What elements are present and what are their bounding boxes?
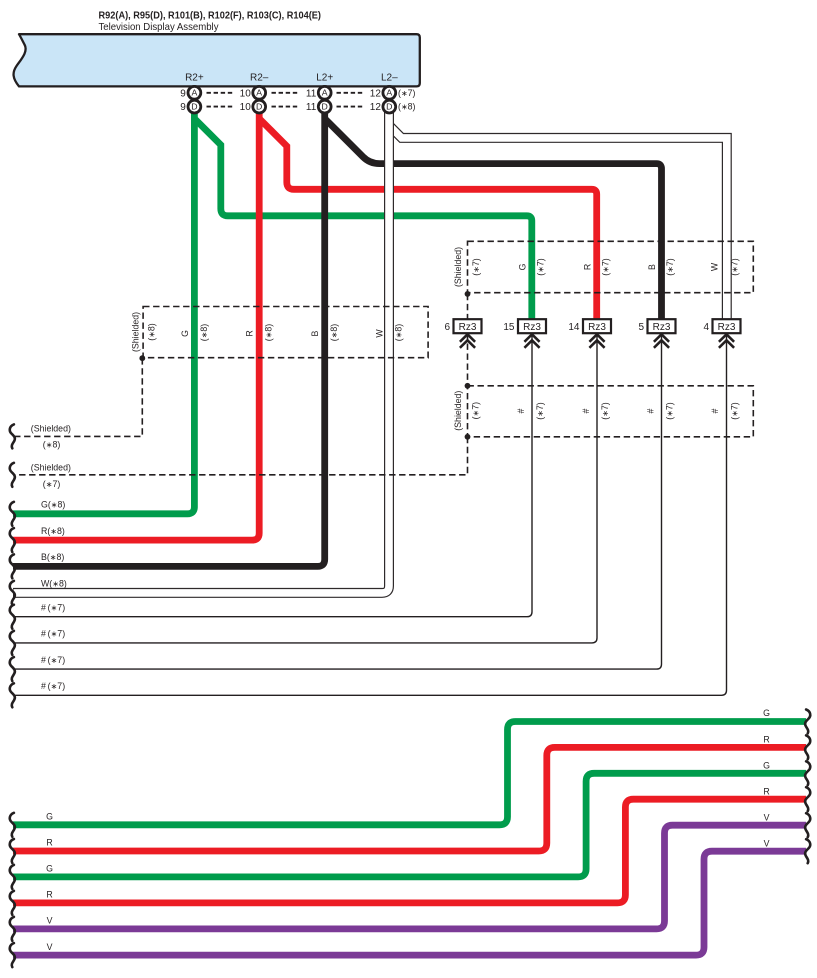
connector 5 Rz3 bbox=[638, 319, 675, 348]
svg-text:#: # bbox=[516, 408, 526, 413]
svg-text:11: 11 bbox=[306, 102, 317, 113]
connector 15 Rz3 bbox=[503, 319, 546, 348]
wavy break R bottom right 2 bbox=[805, 787, 810, 811]
svg-text:(∗7): (∗7) bbox=[600, 402, 610, 420]
wire dashed 11D-12D bbox=[337, 106, 365, 108]
svg-text:V: V bbox=[47, 942, 53, 952]
svg-text:(∗7): (∗7) bbox=[398, 88, 416, 98]
svg-text:9: 9 bbox=[180, 88, 186, 99]
wavy break R bottom left 1 bbox=[10, 839, 15, 863]
wire #5: connector 5 Rz3 shield drain down to left edge #(*7) bbox=[13, 334, 662, 670]
junction dot right lower shield box top bbox=[465, 383, 471, 389]
svg-text:5: 5 bbox=[638, 322, 644, 333]
svg-text:#: # bbox=[581, 408, 591, 413]
connector 4 Rz3 bbox=[703, 319, 740, 348]
svg-text:D: D bbox=[191, 102, 197, 112]
pin 9A bbox=[180, 86, 201, 99]
svg-text:(∗7): (∗7) bbox=[43, 479, 61, 489]
wire #14: connector 14 Rz3 shield drain down to left edge #(*7) bbox=[13, 334, 597, 643]
svg-text:W: W bbox=[710, 262, 720, 271]
svg-text:Television Display Assembly: Television Display Assembly bbox=[99, 21, 220, 33]
svg-text:Rz3: Rz3 bbox=[459, 322, 477, 333]
svg-text:10: 10 bbox=[240, 88, 252, 99]
svg-text:(∗8): (∗8) bbox=[264, 324, 274, 342]
wavy break V bottom left 2 bbox=[10, 943, 15, 967]
svg-text:# (∗7): # (∗7) bbox=[41, 655, 65, 665]
wire R main: pin 10D down to left edge R(*8) bbox=[13, 110, 259, 540]
svg-text:(∗8): (∗8) bbox=[43, 440, 61, 450]
svg-text:14: 14 bbox=[568, 322, 580, 333]
white hollow wires bbox=[13, 108, 727, 593]
wavy break V bottom left 1 bbox=[10, 917, 15, 941]
wire G bottom 2 bbox=[13, 773, 806, 877]
pin 11D bbox=[306, 100, 331, 113]
svg-text:(∗8): (∗8) bbox=[199, 324, 209, 342]
svg-text:B(∗8): B(∗8) bbox=[41, 552, 64, 562]
shield drain: connector 6 Rz3 through lower box to left edge (Shielded)(*7) bbox=[467, 334, 469, 386]
svg-text:A: A bbox=[192, 88, 198, 98]
wire W branch: pin 12D to connector 4 Rz3 (hollow white) bbox=[391, 127, 727, 321]
svg-text:G: G bbox=[763, 760, 770, 770]
junction dot right lower shield box bottom bbox=[465, 434, 471, 440]
svg-text:(Shielded): (Shielded) bbox=[31, 423, 71, 433]
svg-text:(Shielded): (Shielded) bbox=[453, 391, 463, 431]
wavy break G bottom left 1 bbox=[10, 813, 15, 837]
shield box right lower (*7) bbox=[468, 386, 754, 437]
wavy break #3 bbox=[10, 657, 15, 681]
wire R bottom 1 bbox=[13, 747, 806, 851]
svg-text:9: 9 bbox=[180, 102, 186, 113]
wavy break W(*8) bbox=[10, 581, 15, 605]
wire V bottom 2 bbox=[13, 851, 806, 955]
svg-text:G(∗8): G(∗8) bbox=[41, 500, 65, 510]
svg-text:V: V bbox=[764, 813, 770, 823]
wavy break #2 bbox=[10, 631, 15, 655]
svg-text:11: 11 bbox=[306, 88, 317, 99]
svg-text:D: D bbox=[386, 102, 392, 112]
wavy break R bottom right 1 bbox=[805, 735, 810, 759]
svg-text:6: 6 bbox=[444, 322, 450, 333]
Television Display Assembly component box bbox=[14, 34, 420, 86]
wavy break R bottom left 2 bbox=[10, 891, 15, 915]
svg-text:G: G bbox=[46, 864, 53, 874]
wire R bottom 2 bbox=[13, 799, 806, 903]
svg-text:(∗7): (∗7) bbox=[601, 258, 611, 276]
wire B branch: pin 11D to connector 5 Rz3 bbox=[326, 120, 662, 322]
wire dashed 9A-10A bbox=[207, 92, 235, 94]
svg-text:W: W bbox=[375, 329, 385, 338]
wavy break G bottom right 1 bbox=[805, 710, 810, 734]
wire G branch: pin 9D to connector 15 Rz3 bbox=[195, 120, 531, 322]
wavy break G bottom left 2 bbox=[10, 865, 15, 889]
svg-text:# (∗7): # (∗7) bbox=[41, 681, 65, 691]
pin 10A bbox=[240, 86, 266, 99]
svg-text:R: R bbox=[583, 264, 593, 270]
shield drain wire left: dot to left edge (Shielded)(*8) bbox=[13, 358, 142, 436]
svg-text:B: B bbox=[310, 330, 320, 336]
pin 11A bbox=[306, 86, 331, 99]
wavy break G bottom right 2 bbox=[805, 761, 810, 785]
svg-text:G: G bbox=[180, 330, 190, 337]
svg-text:R: R bbox=[245, 330, 255, 336]
connector 6 Rz3 bbox=[444, 319, 481, 348]
svg-text:B: B bbox=[647, 264, 657, 270]
svg-text:(∗7): (∗7) bbox=[730, 258, 740, 276]
svg-text:(∗7): (∗7) bbox=[535, 402, 545, 420]
svg-text:(∗7): (∗7) bbox=[730, 402, 740, 420]
svg-text:#: # bbox=[646, 408, 656, 413]
svg-text:15: 15 bbox=[503, 322, 515, 333]
svg-text:12: 12 bbox=[370, 102, 382, 113]
wavy break #1 bbox=[10, 605, 15, 629]
svg-text:R(∗8): R(∗8) bbox=[41, 526, 65, 536]
svg-text:(∗7): (∗7) bbox=[536, 258, 546, 276]
svg-text:A: A bbox=[386, 88, 392, 98]
svg-text:R: R bbox=[46, 890, 52, 900]
dashed shield lines bbox=[13, 241, 753, 474]
svg-text:(Shielded): (Shielded) bbox=[453, 247, 463, 287]
svg-text:(∗8): (∗8) bbox=[146, 323, 156, 341]
svg-text:(∗8): (∗8) bbox=[329, 324, 339, 342]
svg-text:R2–: R2– bbox=[250, 73, 269, 84]
svg-text:4: 4 bbox=[703, 322, 709, 333]
svg-text:10: 10 bbox=[240, 102, 252, 113]
shield box right upper (*7) bbox=[468, 241, 754, 292]
svg-text:(∗7): (∗7) bbox=[471, 258, 481, 276]
wire #4: connector 4 Rz3 shield drain down to left edge #(*7) bbox=[13, 334, 727, 696]
svg-text:12: 12 bbox=[370, 88, 382, 99]
wavy break R(*8) bbox=[10, 528, 15, 552]
pin 9D bbox=[180, 100, 201, 113]
svg-text:# (∗7): # (∗7) bbox=[41, 629, 65, 639]
svg-text:R: R bbox=[763, 734, 769, 744]
svg-text:(∗7): (∗7) bbox=[471, 402, 481, 420]
svg-text:D: D bbox=[322, 102, 328, 112]
svg-text:V: V bbox=[47, 916, 53, 926]
svg-text:#: # bbox=[710, 408, 720, 413]
svg-text:L2–: L2– bbox=[381, 73, 398, 84]
wire dashed 11A-12A bbox=[337, 92, 365, 94]
pin 10D bbox=[240, 100, 266, 113]
wire #15: connector 15 Rz3 shield drain down to left edge #(*7) bbox=[13, 334, 532, 617]
svg-text:D: D bbox=[256, 102, 262, 112]
wavy break V bottom right 2 bbox=[805, 839, 810, 863]
wire V bottom 1 bbox=[13, 825, 806, 929]
svg-text:G: G bbox=[518, 263, 528, 270]
wire W main: pin 12D down to left edge W(*8) (hollow white) bbox=[13, 109, 389, 593]
wire G bottom 1 bbox=[13, 722, 806, 825]
svg-text:# (∗7): # (∗7) bbox=[41, 603, 65, 613]
wire R branch: pin 10D to connector 14 Rz3 bbox=[260, 120, 597, 322]
svg-text:(∗7): (∗7) bbox=[665, 402, 675, 420]
svg-text:G: G bbox=[763, 708, 770, 718]
wavy break V bottom right 1 bbox=[805, 813, 810, 837]
wavy break (Shielded)(*7) left bbox=[10, 463, 15, 487]
wire G main: pin 9D down to left edge G(*8) bbox=[13, 110, 194, 514]
wire B main: pin 11D down to left edge B(*8) bbox=[13, 110, 325, 566]
wavy break #4 bbox=[10, 683, 15, 707]
pin 12D bbox=[370, 100, 416, 113]
svg-text:R2+: R2+ bbox=[185, 73, 204, 84]
pin 12A bbox=[370, 86, 416, 99]
shield drain: upper box to connector 6 Rz3 bbox=[467, 294, 469, 319]
svg-text:(Shielded): (Shielded) bbox=[31, 463, 71, 473]
svg-text:L2+: L2+ bbox=[316, 73, 333, 84]
wavy break (Shielded)(*8) left bbox=[10, 424, 15, 448]
svg-text:W(∗8): W(∗8) bbox=[41, 579, 67, 589]
svg-text:Rz3: Rz3 bbox=[718, 322, 736, 333]
junction dot right upper shield box bbox=[465, 291, 471, 297]
svg-text:(∗8): (∗8) bbox=[394, 324, 404, 342]
svg-text:Rz3: Rz3 bbox=[653, 322, 671, 333]
wavy break G(*8) bbox=[10, 502, 15, 526]
svg-text:R: R bbox=[763, 787, 769, 797]
shield drain: lower box to left edge (Shielded)(*7) bbox=[13, 437, 468, 475]
wire dashed 9D-10D bbox=[207, 106, 235, 108]
svg-text:R: R bbox=[46, 838, 52, 848]
junction dot left shield box bbox=[139, 355, 145, 361]
svg-text:A: A bbox=[256, 88, 262, 98]
wavy break B(*8) bbox=[10, 554, 15, 578]
svg-text:(∗8): (∗8) bbox=[398, 102, 416, 112]
svg-text:V: V bbox=[764, 839, 770, 849]
svg-text:(Shielded): (Shielded) bbox=[131, 312, 141, 352]
svg-text:Rz3: Rz3 bbox=[523, 322, 541, 333]
wire dashed 10A-11A bbox=[272, 92, 300, 94]
svg-text:G: G bbox=[46, 812, 53, 822]
connector 14 Rz3 bbox=[568, 319, 611, 348]
wire dashed 10D-11D bbox=[272, 106, 300, 108]
svg-text:Rz3: Rz3 bbox=[588, 322, 606, 333]
svg-text:A: A bbox=[322, 88, 328, 98]
shield box left (*8) bbox=[143, 307, 428, 358]
svg-text:(∗7): (∗7) bbox=[665, 258, 675, 276]
